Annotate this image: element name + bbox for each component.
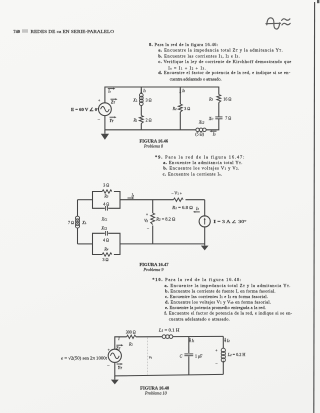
svg-text:a. Encuentre la admitancia tot: a. Encuentre la admitancia total YT. [163,160,242,165]
svg-text:Problema 9: Problema 9 [142,267,163,272]
svg-text:3 Ω: 3 Ω [103,183,109,188]
svg-text:R3: R3 [208,96,213,101]
svg-text:+: + [215,347,218,352]
svg-text:I = 3 A ∠ 30°: I = 3 A ∠ 30° [214,219,247,224]
svg-text:I2: I2 [181,88,185,93]
svg-text:Problema 10: Problema 10 [144,391,167,396]
svg-text:R3: R3 [103,194,108,199]
svg-text:FIGURA 16.46: FIGURA 16.46 [140,138,169,143]
svg-text:e. Encuentre la potencia prome: e. Encuentre la potencia promedio entreg… [165,305,266,310]
svg-text:I1: I1 [191,338,195,343]
svg-text:YT: YT [118,365,122,370]
svg-text:I3: I3 [195,206,199,211]
svg-text:–: – [146,225,150,230]
svg-text:–: – [106,363,110,368]
svg-text:3 Ω: 3 Ω [103,257,109,262]
svg-text:Is: Is [107,90,110,94]
svg-text:L1 = 0.1 H: L1 = 0.1 H [158,327,180,332]
svg-text:Is: Is [131,192,134,197]
svg-text:–: – [215,360,219,365]
svg-text:2 Ω: 2 Ω [146,117,152,122]
svg-text:300 Ω: 300 Ω [126,329,136,334]
svg-text:a. Encuentre la impedancia tot: a. Encuentre la impedancia total ZT y la… [164,283,290,288]
svg-text:4 Ω: 4 Ω [103,237,109,242]
svg-text:d. Encuentre los voltajes V1 y: d. Encuentre los voltajes V1 y Vab en fo… [165,300,271,305]
svg-text:R1: R1 [132,117,137,122]
svg-text:8. Para la red de la figura 1: 8. Para la red de la figura 16.46: [149,42,218,47]
svg-text:a. Encuentre la impedancia tot: a. Encuentre la impedancia total ZT y la… [158,48,283,53]
svg-text:V1: V1 [149,355,152,359]
svg-text:3 Ω: 3 Ω [146,98,152,103]
svg-text:cuentra adelantado o atrasado.: cuentra adelantado o atrasado. [169,316,230,321]
svg-text:c. Encuentre las corrientes I1: c. Encuentre las corrientes I1 e I2 en f… [165,294,268,299]
svg-text:c. Encuentre la corriente Is.: c. Encuentre la corriente Is. [163,172,223,177]
svg-text:7 Ω: 7 Ω [225,116,231,121]
svg-text:I2: I2 [226,338,230,343]
svg-text:+: + [146,211,149,216]
svg-text:R2: R2 [172,106,177,111]
svg-text:7 Ω: 7 Ω [68,220,74,225]
svg-text:E = 60 V ∠ 0°: E = 60 V ∠ 0° [71,107,99,112]
svg-text:4 Ω: 4 Ω [103,201,109,206]
svg-text:+: + [98,98,101,103]
svg-text:–: – [97,116,101,121]
svg-text:REDES DE ca EN SERIE-PARALELO: REDES DE ca EN SERIE-PARALELO [31,29,115,34]
svg-text:I1: I1 [142,88,146,93]
svg-text:C: C [180,354,183,359]
svg-text:(5 Ω): (5 Ω) [195,131,204,136]
svg-text:R1: R1 [128,341,133,346]
svg-text:V2: V2 [144,218,148,223]
svg-text:R1 = 6.8 Ω: R1 = 6.8 Ω [171,205,193,210]
svg-text:R2 = 8.2 Ω: R2 = 8.2 Ω [155,216,175,221]
svg-text:1 μF: 1 μF [195,354,203,359]
svg-text:c. Verifique la ley de corrien: c. Verifique la ley de corriente de Kirc… [158,59,291,64]
svg-text:– V1 +: – V1 + [171,191,183,196]
svg-text:Problema 8: Problema 8 [143,144,163,149]
svg-text:YT: YT [110,119,114,123]
svg-text:740: 740 [13,29,20,34]
svg-text:ZT: ZT [115,345,120,350]
svg-text:XC1: XC1 [101,216,108,221]
svg-text:d. Encuentre el factor de pote: d. Encuentre el factor de potencia de la… [158,70,291,76]
svg-text:XL: XL [81,220,86,225]
svg-text:XL: XL [132,98,137,103]
svg-text:XC: XC [208,116,213,121]
svg-text:FIGURA 16.48: FIGURA 16.48 [140,385,169,390]
svg-text:cuentra adelantado o atrasado.: cuentra adelantado o atrasado. [170,76,222,81]
svg-text:I3: I3 [212,131,216,136]
svg-text:*10. Para la red de la figura: *10. Para la red de la figura 16.48: [152,277,241,282]
svg-text:3 Ω: 3 Ω [184,106,190,111]
svg-text:e = √2(50) sen 2π 1000t: e = √2(50) sen 2π 1000t [61,355,108,360]
svg-text:b. Encuentre los voltajes V1 y: b. Encuentre los voltajes V1 y V2. [163,166,239,171]
svg-text:XC2: XC2 [100,226,107,231]
svg-text:L2 = 0.2 H: L2 = 0.2 H [227,352,246,357]
svg-text:R4: R4 [103,247,108,252]
svg-text:ZT: ZT [110,100,115,104]
svg-text:XL2: XL2 [198,120,205,125]
svg-text:16 Ω: 16 Ω [223,96,231,101]
